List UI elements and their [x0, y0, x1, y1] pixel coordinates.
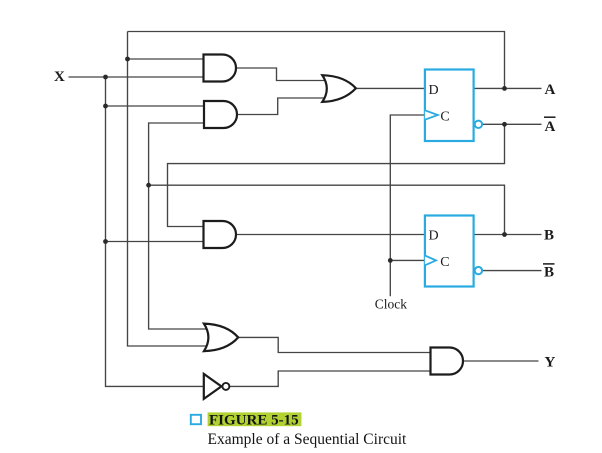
- svg-text:FIGURE 5-15: FIGURE 5-15: [209, 412, 299, 428]
- svg-text:B: B: [544, 265, 554, 281]
- svg-text:A: A: [545, 82, 556, 98]
- svg-text:B: B: [544, 227, 554, 243]
- svg-text:X: X: [54, 69, 65, 85]
- svg-text:A: A: [545, 119, 556, 135]
- svg-text:Clock: Clock: [375, 296, 407, 311]
- svg-text:D: D: [429, 83, 439, 98]
- svg-text:C: C: [440, 255, 449, 270]
- svg-text:Y: Y: [545, 354, 556, 370]
- svg-text:Example of a Sequential Circui: Example of a Sequential Circuit: [208, 431, 408, 448]
- svg-text:C: C: [440, 110, 449, 125]
- svg-text:D: D: [429, 229, 439, 244]
